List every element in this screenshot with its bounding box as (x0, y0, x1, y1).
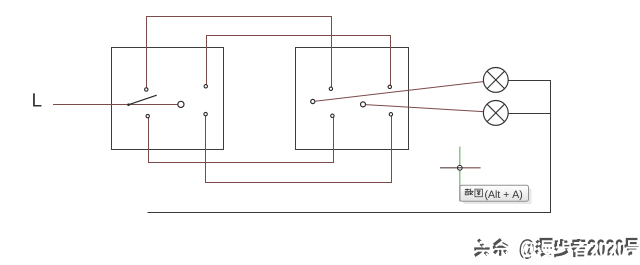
terminal SW1 bottom-right (204, 112, 207, 115)
wire traveler 1 (SW1 top-left to SW2 top-left) (147, 17, 332, 88)
wire lamp E2 to neutral (509, 113, 551, 115)
tooltip glyph jie (465, 188, 474, 194)
terminal SW1 common pole (178, 101, 184, 107)
cursor crosshair horizontal (440, 167, 481, 169)
terminal SW2 top-left (329, 87, 332, 90)
terminal SW1 bottom-left (146, 114, 149, 117)
switch SW1 lever (127, 95, 157, 106)
tooltip glyph tu (475, 189, 482, 197)
wire lamp E1 to neutral (509, 80, 551, 82)
watermark char zhe (571, 239, 589, 257)
watermark char hao (625, 239, 640, 255)
watermark char bu (554, 239, 571, 257)
terminal SW1 top-left (145, 88, 148, 91)
tooltip box (460, 185, 529, 201)
lamp E2 (483, 101, 508, 126)
switch box SW2 (296, 48, 409, 150)
watermark char man (536, 239, 553, 257)
watermark char tiao (493, 239, 510, 257)
terminal SW2 bottom-left (331, 114, 334, 117)
terminal SW2 bottom-right (389, 113, 392, 116)
node L label (33, 93, 41, 106)
switch box SW1 (112, 48, 224, 150)
terminal SW2 top-right (388, 85, 391, 88)
terminal SW2 common pole 1 (311, 99, 315, 103)
terminal SW1 top-right (204, 85, 207, 88)
wire traveler 3 (SW1 bottom-left to SW2 bottom-left) (149, 118, 334, 163)
wire traveler 4 (SW1 bottom-right to SW2 bottom-right) (206, 116, 392, 183)
watermark char tou (474, 240, 491, 258)
wire lamp feed 1 (315, 82, 483, 102)
watermark digits 2020 (588, 239, 627, 258)
lamp E1 (483, 68, 508, 93)
tooltip shadow (463, 189, 532, 205)
wire lamp feed 2 (366, 105, 483, 112)
terminal SW2 common pole 2 (361, 102, 366, 107)
wire L feed (53, 104, 177, 106)
wire neutral riser (550, 80, 552, 213)
tooltip text (Alt + A) (485, 190, 522, 200)
cursor crosshair vertical (459, 147, 461, 202)
cursor snap marker (457, 165, 462, 170)
wire neutral bus N (148, 211, 551, 213)
wire traveler 2 (SW1 top-right to SW2 top-right) (207, 36, 391, 85)
watermark at-sign (520, 239, 537, 262)
